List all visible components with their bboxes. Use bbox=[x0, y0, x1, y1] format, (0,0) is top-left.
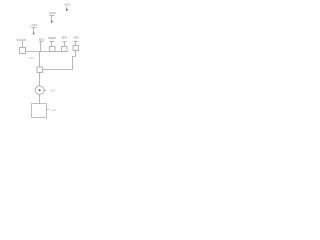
power flag VCC1 bar bbox=[50, 15, 55, 17]
unit U1 right tick bbox=[47, 109, 50, 111]
pump P1 arrow bbox=[39, 89, 42, 91]
svg-text:1R5: 1R5 bbox=[73, 36, 79, 40]
wire bus bbox=[26, 51, 66, 53]
pump P1 right tick bbox=[44, 89, 47, 91]
wire R4 to valve X1 (jog) bbox=[43, 57, 76, 70]
resistor R4 top tick bbox=[74, 40, 78, 42]
svg-text:1N415: 1N415 bbox=[17, 38, 26, 42]
wire R2 top lead bbox=[51, 42, 53, 47]
svg-text:HSR2: HSR2 bbox=[48, 36, 57, 40]
node dot VCC2 bbox=[66, 9, 68, 11]
unit U1 body (box) bbox=[32, 104, 47, 118]
resistor R2 top tick bbox=[50, 41, 54, 43]
wire R4 top lead bbox=[75, 41, 77, 45]
node dot VCC1 bbox=[51, 21, 53, 23]
resistor R1 body bbox=[20, 48, 26, 54]
wire VCC1 stem bbox=[51, 16, 53, 22]
wire R3 top lead bbox=[64, 42, 66, 47]
resistor R4 body bbox=[73, 46, 79, 51]
node dot VCC3 bbox=[33, 32, 35, 34]
wire VCC3 stem bbox=[33, 28, 35, 33]
wire R4 bottom lead bbox=[75, 51, 77, 57]
svg-text:+12V: +12V bbox=[30, 23, 38, 27]
wire valve X1 to pump P1 bbox=[39, 73, 41, 86]
svg-text:- 1/8: - 1/8 bbox=[49, 88, 55, 92]
resistor R2 body bbox=[50, 47, 56, 52]
svg-text:+5V0: +5V0 bbox=[48, 11, 56, 15]
svg-text:. 100: . 100 bbox=[27, 56, 34, 60]
svg-text:R21: R21 bbox=[39, 38, 45, 42]
resistor R3 body bbox=[62, 47, 68, 52]
net stub TP1 tick bbox=[39, 41, 43, 43]
wire R1 top lead bbox=[22, 41, 24, 47]
svg-text:3V3: 3V3 bbox=[64, 2, 70, 6]
power flag VCC3 bar bbox=[31, 27, 36, 29]
wire VCC2 stem bbox=[66, 7, 68, 10]
svg-text:+ 10: + 10 bbox=[51, 108, 57, 112]
wire pump P1 to unit U1 bbox=[39, 95, 41, 104]
pump P1 body (circle) bbox=[35, 86, 44, 95]
wire TP1 stem bbox=[40, 42, 42, 52]
resistor R3 top tick bbox=[62, 41, 66, 43]
valve X1 body (square) bbox=[37, 67, 43, 73]
svg-text:3R1: 3R1 bbox=[62, 35, 68, 39]
wire bus to valve X1 bbox=[39, 52, 41, 68]
